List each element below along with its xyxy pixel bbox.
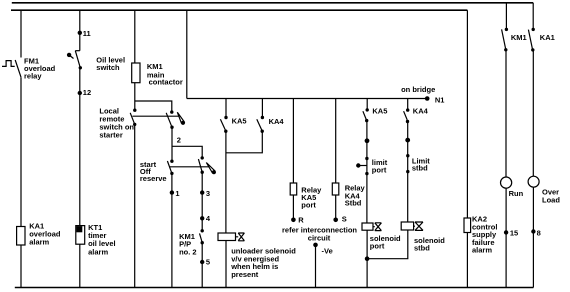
limit port switch lower contact bbox=[365, 172, 368, 175]
label Limit stbd bbox=[412, 157, 430, 173]
contact KA1 blade bbox=[528, 30, 532, 50]
wire KA1 lamp rail top bbox=[532, 3, 534, 30]
contact KA5 left upper bbox=[224, 99, 227, 120]
wire KA4 bridge rail bbox=[407, 122, 409, 223]
wire run lamp rail bbox=[505, 50, 507, 177]
overload relay FM1 heater element bbox=[2, 61, 15, 67]
local switch upper contact bbox=[133, 109, 136, 112]
wire relay KA5 lower bbox=[292, 195, 294, 220]
contact KM1 P/P lower bbox=[201, 241, 204, 244]
lamp Run bbox=[501, 177, 512, 188]
svg-text:KA4: KA4 bbox=[413, 107, 429, 116]
svg-text:present: present bbox=[231, 270, 259, 279]
wire -Ve rail bbox=[315, 245, 317, 288]
start switch blade bbox=[167, 161, 172, 173]
wire 2 branch bbox=[172, 146, 202, 158]
contact KA4 bridge blade bbox=[404, 111, 408, 120]
oil level switch blade bbox=[75, 51, 80, 68]
relay coil KA1 overload alarm bbox=[17, 227, 25, 246]
label Relay KA5 port bbox=[301, 185, 322, 209]
label start Off reserve bbox=[140, 160, 167, 183]
overload relay FM1 contact blade bbox=[15, 60, 21, 77]
label unloader solenoid note bbox=[230, 247, 296, 279]
node 8 bbox=[531, 229, 535, 233]
contactor coil KM1 main contactor bbox=[132, 63, 140, 83]
svg-text:starter: starter bbox=[99, 131, 122, 140]
svg-text:KM1: KM1 bbox=[511, 33, 527, 42]
start switch lower contact bbox=[170, 172, 173, 175]
svg-text:stbd: stbd bbox=[412, 164, 428, 173]
wire relay KA4 rail bbox=[335, 99, 337, 184]
node junction stbd bbox=[405, 138, 410, 143]
svg-text:2: 2 bbox=[177, 136, 181, 145]
limit stbd switch upper contact bbox=[406, 154, 409, 157]
svg-text:1: 1 bbox=[175, 189, 179, 198]
wire overload lamp rail bbox=[532, 50, 534, 176]
valve symbol unloader bbox=[236, 233, 245, 241]
solenoid coil stbd bbox=[401, 222, 413, 230]
wire run lamp lower bbox=[505, 188, 507, 287]
wire rail 6 to bridge bus bbox=[186, 10, 188, 98]
svg-text:KA1: KA1 bbox=[540, 33, 555, 42]
svg-text:Run: Run bbox=[509, 189, 524, 198]
wire top bus line 2 bbox=[11, 9, 467, 11]
svg-text:8: 8 bbox=[537, 229, 541, 238]
wire KM1 lamp rail top bbox=[505, 3, 507, 30]
label KM1 P/P no. 2 bbox=[179, 232, 197, 257]
svg-text:R: R bbox=[298, 216, 304, 225]
solenoid coil unloader bbox=[218, 233, 236, 241]
label KT1 timer oil level alarm bbox=[88, 223, 116, 256]
contact KA4 left lower bbox=[261, 130, 264, 133]
label KA2 control supply failure alarm bbox=[472, 215, 497, 255]
wire unloader rail bbox=[225, 131, 227, 233]
svg-text:port: port bbox=[372, 166, 387, 175]
svg-text:no. 2: no. 2 bbox=[179, 248, 197, 257]
svg-text:15: 15 bbox=[510, 229, 518, 238]
contact KA4 bridge upper bbox=[406, 99, 409, 112]
node 5 bbox=[200, 260, 204, 264]
svg-text:port: port bbox=[301, 201, 316, 210]
lamp Over Load bbox=[528, 176, 539, 187]
wire port solenoid bottom bbox=[366, 230, 368, 287]
node S bbox=[333, 218, 338, 223]
wire relay KA5 rail bbox=[292, 99, 294, 184]
svg-text:port: port bbox=[370, 241, 385, 250]
svg-text:Load: Load bbox=[542, 196, 560, 205]
wire KA5 bridge rail bbox=[366, 121, 368, 223]
wire W1 to remote contact bbox=[135, 101, 172, 112]
wire rail 5 bbox=[201, 172, 203, 287]
node junction port bbox=[365, 138, 370, 143]
off switch lower contact bbox=[201, 171, 204, 174]
wire rail 4 from remote switch bbox=[171, 127, 173, 192]
off switch actuator flag bbox=[206, 163, 216, 175]
wire relay KA4 lower bbox=[335, 195, 337, 220]
contact KM1 P/P blade bbox=[200, 233, 203, 242]
svg-text:on bridge: on bridge bbox=[401, 85, 435, 94]
wire rail KA2 bbox=[466, 10, 468, 218]
label Local remote switch on starter bbox=[99, 106, 134, 139]
svg-text:12: 12 bbox=[83, 88, 91, 97]
local switch lower contact bbox=[133, 123, 136, 126]
node 11 bbox=[78, 31, 82, 35]
wire rail KA2 bottom bbox=[466, 233, 468, 288]
svg-text:KA5: KA5 bbox=[232, 116, 247, 125]
wire rail 4 bottom bbox=[171, 193, 173, 288]
relay coil KA5 port bbox=[290, 183, 297, 195]
wire rail 3 lower bbox=[134, 124, 136, 287]
contact KA1 upper bbox=[532, 28, 535, 31]
wire top bus line 1 bbox=[12, 2, 533, 4]
svg-text:5: 5 bbox=[206, 257, 210, 266]
remote switch lower contact bbox=[170, 126, 173, 129]
contact KA4 bridge lower bbox=[406, 120, 409, 123]
node -Ve terminal bbox=[313, 243, 318, 248]
wire rail 3 upper bbox=[134, 10, 136, 63]
wire rail 3 below coil bbox=[134, 83, 136, 111]
label Oil level switch bbox=[96, 55, 125, 72]
svg-text:switch: switch bbox=[96, 63, 120, 72]
limit port switch side contact bbox=[356, 163, 367, 167]
contact KA5 bridge lower bbox=[365, 119, 368, 122]
svg-text:11: 11 bbox=[83, 29, 91, 38]
wire rail 1 lower bbox=[20, 77, 22, 226]
node 12 bbox=[78, 91, 82, 95]
svg-text:Stbd: Stbd bbox=[345, 199, 362, 208]
svg-text:-Ve: -Ve bbox=[322, 247, 333, 256]
svg-text:alarm: alarm bbox=[88, 247, 108, 256]
remote switch actuator flag bbox=[177, 112, 185, 125]
wire solenoid cross link bbox=[367, 230, 408, 259]
node 4 bbox=[200, 216, 204, 220]
valve symbol port bbox=[373, 223, 381, 231]
contact KA4 left blade bbox=[257, 119, 262, 131]
wire unloader bottom bbox=[225, 241, 227, 288]
label limit port bbox=[372, 158, 388, 175]
svg-text:circuit: circuit bbox=[308, 234, 331, 243]
label solenoid port bbox=[370, 234, 401, 250]
label refer interconnection circuit bbox=[282, 225, 357, 242]
off switch upper contact bbox=[201, 156, 204, 159]
svg-text:reserve: reserve bbox=[140, 174, 167, 183]
svg-text:KA4: KA4 bbox=[269, 117, 285, 126]
svg-text:N1: N1 bbox=[435, 95, 445, 104]
limit stbd switch lower contact bbox=[406, 170, 409, 173]
contact KA1 lower bbox=[531, 48, 534, 51]
label KA1 overload alarm bbox=[29, 221, 61, 246]
svg-text:alarm: alarm bbox=[472, 246, 492, 255]
label solenoid stbd bbox=[414, 236, 445, 252]
contact KM1 lower bbox=[504, 48, 507, 51]
node solenoid common junction bbox=[365, 256, 370, 261]
contact KA5 left blade bbox=[220, 119, 225, 131]
remote switch upper contact bbox=[170, 110, 173, 113]
wire rail 2 middle bbox=[79, 68, 81, 93]
relay coil KT1 timer oil level alarm bbox=[76, 226, 85, 245]
wire KA4 left to unloader rail bbox=[226, 131, 262, 153]
wire W3 between start blades bbox=[170, 166, 210, 168]
wire rail 2 lower bbox=[79, 93, 81, 226]
contact KA4 left upper bbox=[261, 99, 264, 120]
node N1 bbox=[425, 96, 430, 101]
svg-text:stbd: stbd bbox=[414, 243, 430, 252]
oil level switch lower contact bbox=[79, 66, 82, 69]
valve symbol stbd bbox=[414, 222, 423, 230]
wire rail 1 upper bbox=[20, 10, 22, 57]
wire on-bridge bus bbox=[187, 98, 427, 100]
wire overload lamp lower bbox=[532, 187, 534, 287]
contact KA5 bridge upper bbox=[366, 99, 369, 112]
wire rail 2 bottom bbox=[79, 244, 81, 287]
contact KA5 left lower bbox=[224, 130, 227, 133]
contact KM1 upper bbox=[505, 28, 508, 31]
node R bbox=[291, 218, 296, 223]
start switch upper contact bbox=[170, 160, 173, 163]
oil level switch step bbox=[75, 50, 80, 52]
svg-text:S: S bbox=[342, 215, 347, 224]
label Relay KA4 Stbd bbox=[345, 184, 366, 208]
remote switch blade bbox=[166, 113, 172, 127]
solenoid coil port bbox=[362, 223, 373, 230]
svg-text:relay: relay bbox=[24, 71, 42, 80]
node 15 bbox=[504, 230, 508, 234]
svg-text:KA5: KA5 bbox=[372, 107, 387, 116]
label FM1 overload relay bbox=[24, 56, 56, 80]
wire rail 1 bottom bbox=[20, 245, 22, 288]
svg-text:contactor: contactor bbox=[149, 78, 183, 87]
label KM1 main contactor bbox=[147, 62, 183, 86]
off switch blade bbox=[198, 159, 202, 172]
svg-text:3: 3 bbox=[206, 189, 210, 198]
wire W2 between switch blades bbox=[133, 115, 180, 117]
wire rail 2 upper bbox=[79, 10, 81, 51]
limit port switch upper contact bbox=[365, 157, 368, 160]
node 3 bbox=[200, 190, 204, 194]
oil level switch fixed contact bbox=[67, 53, 74, 59]
local switch blade bbox=[130, 113, 135, 125]
contact KM1 blade bbox=[502, 29, 506, 49]
label Over Load bbox=[542, 188, 560, 205]
relay coil KA2 control supply failure alarm bbox=[464, 218, 471, 233]
svg-text:alarm: alarm bbox=[29, 238, 49, 247]
node 1 bbox=[170, 190, 174, 194]
contact KM1 P/P upper bbox=[201, 229, 204, 232]
relay coil KA4 stbd bbox=[332, 183, 339, 195]
wire bottom bus bbox=[15, 287, 534, 289]
contact KA5 bridge blade bbox=[363, 111, 367, 120]
